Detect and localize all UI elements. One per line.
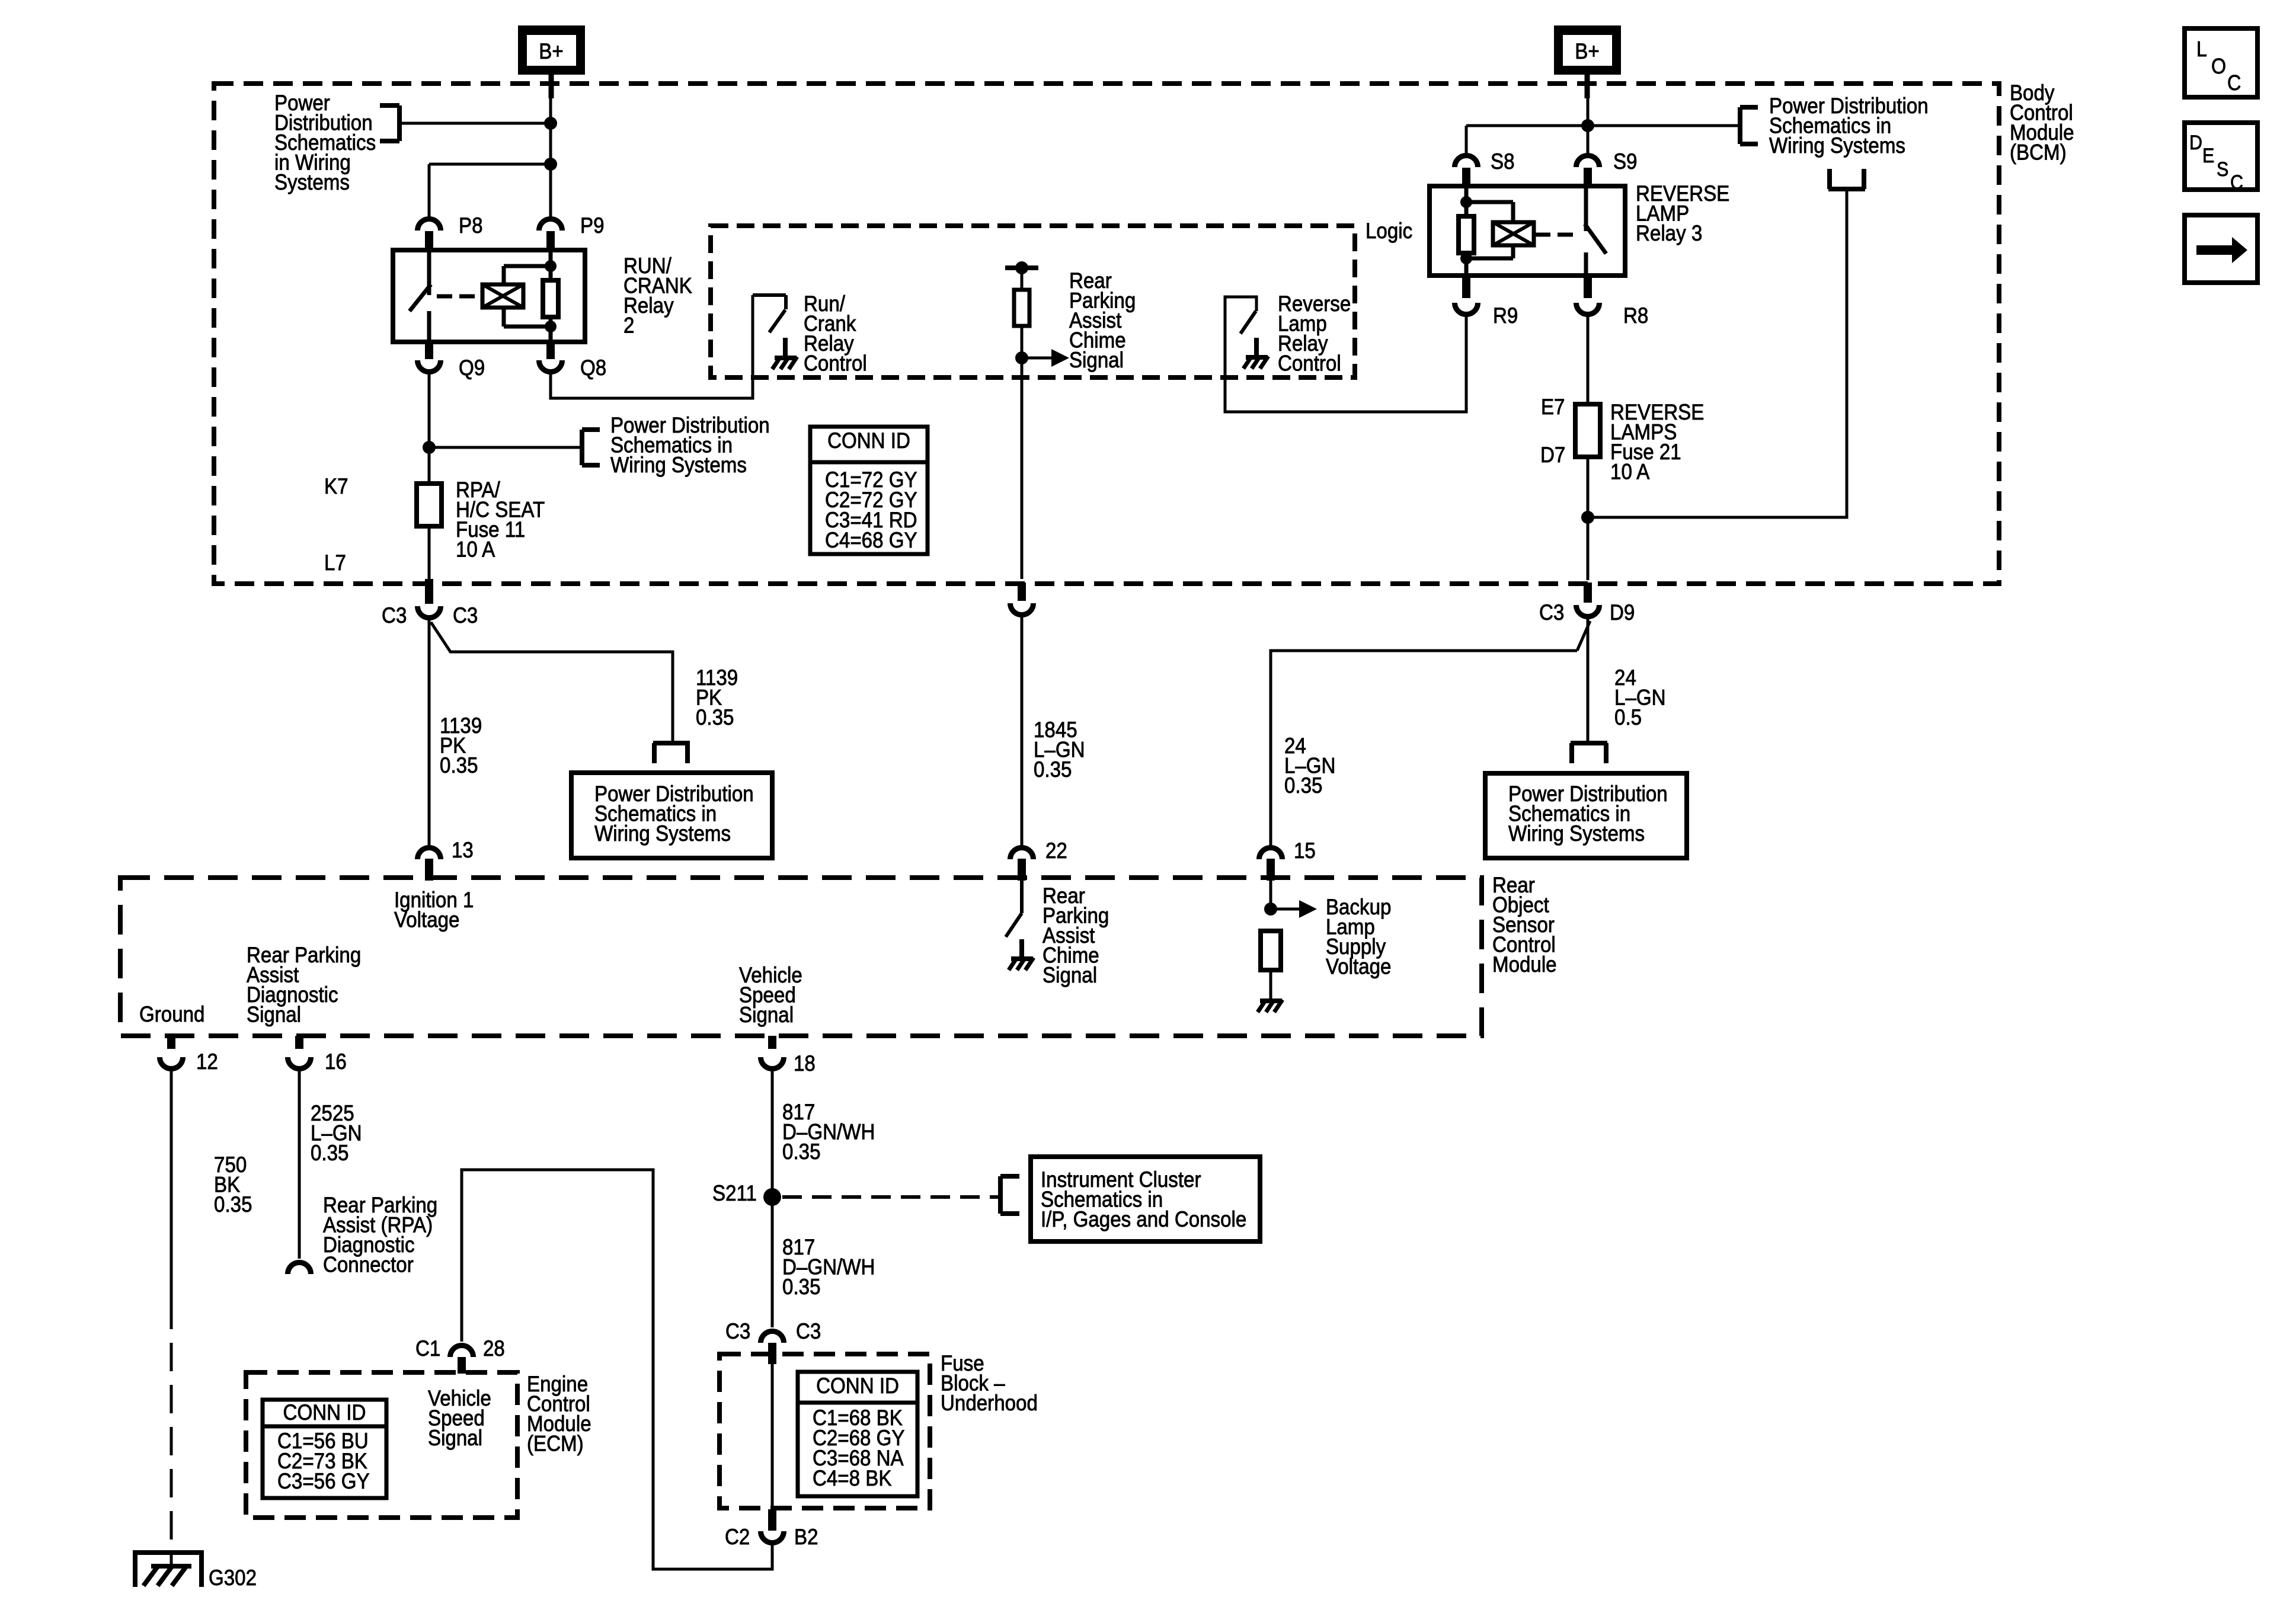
svg-text:C1: C1	[415, 1336, 440, 1361]
svg-text:O: O	[2211, 55, 2226, 78]
svg-text:P8: P8	[459, 213, 483, 238]
svg-text:C3: C3	[382, 603, 407, 628]
svg-text:G302: G302	[209, 1566, 257, 1590]
svg-text:16: 16	[325, 1049, 347, 1074]
svg-text:Relay 3: Relay 3	[1636, 221, 1702, 245]
svg-text:C2: C2	[725, 1525, 750, 1549]
svg-text:Ground: Ground	[139, 1002, 204, 1026]
svg-text:C3: C3	[796, 1319, 821, 1343]
svg-text:C3=56 GY: C3=56 GY	[277, 1469, 370, 1493]
svg-text:0.35: 0.35	[440, 753, 478, 777]
svg-text:C4=68 GY: C4=68 GY	[825, 528, 917, 552]
svg-text:E7: E7	[1541, 395, 1565, 419]
svg-text:C3: C3	[725, 1319, 750, 1343]
svg-text:Wiring Systems: Wiring Systems	[1769, 133, 1905, 158]
svg-text:Signal: Signal	[247, 1003, 301, 1027]
svg-text:L7: L7	[324, 551, 346, 575]
svg-text:Systems: Systems	[274, 170, 350, 194]
svg-text:S8: S8	[1491, 149, 1515, 174]
svg-text:CONN ID: CONN ID	[816, 1374, 899, 1398]
svg-text:(ECM): (ECM)	[527, 1432, 584, 1456]
svg-text:CONN ID: CONN ID	[283, 1400, 366, 1425]
svg-text:0.35: 0.35	[782, 1275, 820, 1299]
svg-text:0.35: 0.35	[1284, 773, 1322, 798]
svg-text:C4=8 BK: C4=8 BK	[813, 1466, 892, 1490]
svg-text:L: L	[2196, 37, 2207, 61]
svg-text:Signal: Signal	[1069, 348, 1124, 372]
svg-text:C: C	[2230, 171, 2243, 193]
svg-text:10 A: 10 A	[1610, 460, 1650, 484]
svg-text:Logic: Logic	[1366, 219, 1412, 243]
svg-text:0.35: 0.35	[214, 1192, 252, 1217]
svg-text:C: C	[2227, 71, 2241, 95]
svg-text:CONN ID: CONN ID	[827, 428, 910, 453]
svg-text:Q9: Q9	[459, 356, 485, 380]
svg-text:0.35: 0.35	[782, 1140, 820, 1164]
svg-text:Control: Control	[804, 351, 867, 376]
svg-text:B2: B2	[794, 1525, 818, 1549]
svg-text:Q8: Q8	[580, 356, 606, 380]
svg-text:Connector: Connector	[323, 1253, 414, 1277]
svg-text:2: 2	[623, 313, 634, 338]
svg-text:12: 12	[196, 1049, 218, 1074]
svg-text:0.35: 0.35	[311, 1141, 348, 1165]
svg-text:E: E	[2202, 144, 2214, 167]
svg-text:Control: Control	[1278, 351, 1341, 376]
svg-text:28: 28	[483, 1336, 505, 1361]
svg-text:Wiring Systems: Wiring Systems	[1508, 821, 1645, 846]
svg-text:Signal: Signal	[1043, 963, 1097, 987]
svg-text:B+: B+	[1575, 39, 1599, 63]
svg-text:22: 22	[1045, 838, 1067, 863]
svg-text:D: D	[2189, 131, 2202, 153]
svg-text:Signal: Signal	[428, 1426, 482, 1450]
svg-text:R9: R9	[1493, 303, 1518, 328]
svg-text:Voltage: Voltage	[394, 908, 459, 932]
svg-text:0.5: 0.5	[1614, 705, 1642, 729]
svg-text:Voltage: Voltage	[1326, 955, 1391, 979]
svg-text:S: S	[2217, 158, 2228, 180]
svg-text:P9: P9	[580, 213, 605, 238]
svg-text:10 A: 10 A	[456, 537, 495, 562]
svg-text:D9: D9	[1610, 600, 1635, 625]
svg-text:K7: K7	[324, 474, 348, 498]
svg-text:0.35: 0.35	[1034, 757, 1072, 782]
svg-text:13: 13	[452, 838, 474, 862]
svg-text:Wiring Systems: Wiring Systems	[594, 821, 731, 846]
svg-text:C3: C3	[1539, 600, 1564, 625]
svg-text:D7: D7	[1540, 443, 1565, 467]
svg-text:S211: S211	[712, 1181, 757, 1205]
svg-text:Wiring Systems: Wiring Systems	[610, 453, 747, 477]
svg-text:Signal: Signal	[739, 1003, 794, 1027]
svg-text:B+: B+	[539, 39, 563, 63]
svg-text:S9: S9	[1613, 149, 1638, 174]
svg-text:(BCM): (BCM)	[2010, 140, 2067, 165]
svg-text:15: 15	[1294, 838, 1316, 863]
svg-text:Underhood: Underhood	[941, 1391, 1038, 1415]
svg-text:C3: C3	[453, 603, 478, 628]
svg-text:R8: R8	[1623, 303, 1648, 328]
svg-text:I/P, Gages and Console: I/P, Gages and Console	[1041, 1207, 1246, 1231]
svg-text:18: 18	[794, 1051, 816, 1076]
svg-text:0.35: 0.35	[696, 705, 734, 729]
svg-text:Module: Module	[1492, 952, 1557, 977]
